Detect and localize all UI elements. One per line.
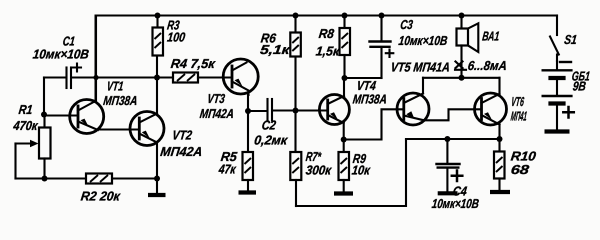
svg-text:6...8мА: 6...8мА	[467, 58, 508, 73]
svg-text:С2: С2	[261, 118, 277, 133]
resistor R7* 300к	[290, 149, 333, 206]
svg-text:10к: 10к	[351, 163, 372, 178]
svg-text:300к: 300к	[305, 163, 333, 178]
svg-text:МП42А: МП42А	[160, 144, 204, 159]
svg-text:R8: R8	[318, 26, 335, 41]
node R6/R7/C2 wire	[293, 108, 299, 114]
ground R5	[239, 190, 257, 194]
svg-text:С3: С3	[400, 17, 415, 32]
transistor VT3 МП42А	[199, 59, 258, 152]
node C1 right / collector riser	[93, 75, 98, 80]
svg-text:S1: S1	[564, 32, 578, 47]
svg-text:10мк×10В: 10мк×10В	[398, 33, 449, 48]
svg-text:R1: R1	[18, 102, 34, 117]
resistor R5 47к	[217, 149, 253, 191]
svg-text:VТ5 МП41А: VТ5 МП41А	[390, 60, 451, 75]
svg-text:МП38А: МП38А	[103, 93, 139, 108]
wire left rail drop to VT1 collector	[95, 16, 97, 102]
resistor R2 20к	[80, 174, 122, 204]
svg-text:ВА1: ВА1	[482, 29, 501, 44]
svg-text:R2 20к: R2 20к	[80, 189, 122, 204]
svg-text:9В: 9В	[572, 79, 587, 94]
loudspeaker BA1	[457, 16, 501, 76]
svg-text:МП38А: МП38А	[352, 92, 388, 107]
wire R8 node to C3 drop	[345, 77, 382, 79]
resistor R6 5,1к	[259, 16, 300, 153]
svg-text:VТ1: VТ1	[106, 79, 124, 94]
resistor R8 1,5к	[315, 16, 350, 79]
wire main y77	[96, 76, 173, 78]
node R3/VT2 collector	[154, 75, 160, 81]
node rail-R6	[293, 13, 299, 19]
node VT4e/R9	[341, 137, 347, 143]
node VT3e/C2/R5	[245, 108, 251, 114]
capacitor C3 10мк×10В	[370, 16, 449, 79]
svg-text:470к: 470к	[12, 118, 40, 133]
transistor VT6 МП41	[475, 78, 528, 139]
resistor R3 100	[153, 16, 187, 56]
svg-text:1,5к: 1,5к	[315, 44, 342, 59]
wire output emitter node y139	[406, 138, 500, 140]
svg-text:10мк×10В: 10мк×10В	[431, 196, 480, 211]
svg-text:VТ3: VТ3	[207, 91, 227, 106]
capacitor C1	[32, 34, 96, 115]
svg-text:МП41: МП41	[510, 109, 528, 124]
ground C4	[438, 191, 458, 195]
node rail-C3	[379, 13, 385, 19]
node R8/C3/VT4 collector	[342, 75, 348, 81]
wire VT1 base	[44, 114, 77, 116]
node speaker/collector	[459, 75, 465, 81]
node VT2e-rail	[154, 176, 160, 182]
resistor R9 10к	[339, 140, 373, 193]
svg-text:0,2мк: 0,2мк	[253, 133, 289, 148]
wire VT4e to VT5 base	[344, 109, 403, 139]
battery GB1 9В	[543, 61, 591, 130]
ground R9	[334, 191, 353, 195]
svg-text:47к: 47к	[217, 162, 238, 177]
svg-text:R4 7,5к: R4 7,5к	[170, 56, 217, 71]
node C4 top	[444, 136, 450, 142]
resistor R4 7,5к	[170, 56, 217, 82]
capacitor C4 10мк×10В	[431, 139, 480, 211]
wire collectors/speaker y78	[423, 77, 500, 79]
current note ×6...8мА	[455, 58, 508, 73]
svg-text:МП42А: МП42А	[199, 106, 235, 121]
svg-text:10мк×10В: 10мк×10В	[32, 47, 90, 62]
svg-text:VТ6: VТ6	[511, 94, 526, 109]
resistor R1 (potentiometer 470к)	[12, 102, 51, 178]
ground battery	[545, 129, 570, 133]
switch S1	[550, 16, 578, 62]
ground R10	[490, 190, 510, 194]
svg-text:VТ2: VТ2	[172, 128, 194, 143]
wire R4 to VT3 base	[198, 76, 231, 78]
svg-text:R7*: R7*	[305, 149, 322, 164]
transistor VT5 МП41А	[390, 60, 480, 125]
node pot-rail	[42, 176, 48, 182]
resistor R10 68	[494, 139, 538, 190]
svg-text:5,1к: 5,1к	[259, 42, 292, 57]
node rail-R8	[342, 13, 348, 19]
wire bottom-left rail	[16, 177, 87, 179]
capacitor C2 0,2мк	[248, 99, 327, 147]
transistor VT2 МП42А	[130, 56, 203, 194]
wire top supply rail	[96, 14, 557, 16]
node rail-BA1	[459, 13, 465, 19]
node rail-R3	[155, 13, 161, 19]
node VT6e/R10	[497, 136, 503, 142]
transistor VT4 МП38А	[319, 78, 387, 140]
svg-text:68: 68	[510, 162, 531, 177]
svg-text:100: 100	[166, 30, 186, 45]
transistor VT1 МП38А	[70, 16, 139, 134]
node C1/base	[41, 112, 47, 118]
ground VT2 emitter	[148, 193, 166, 197]
wire feedback bus	[296, 140, 406, 207]
